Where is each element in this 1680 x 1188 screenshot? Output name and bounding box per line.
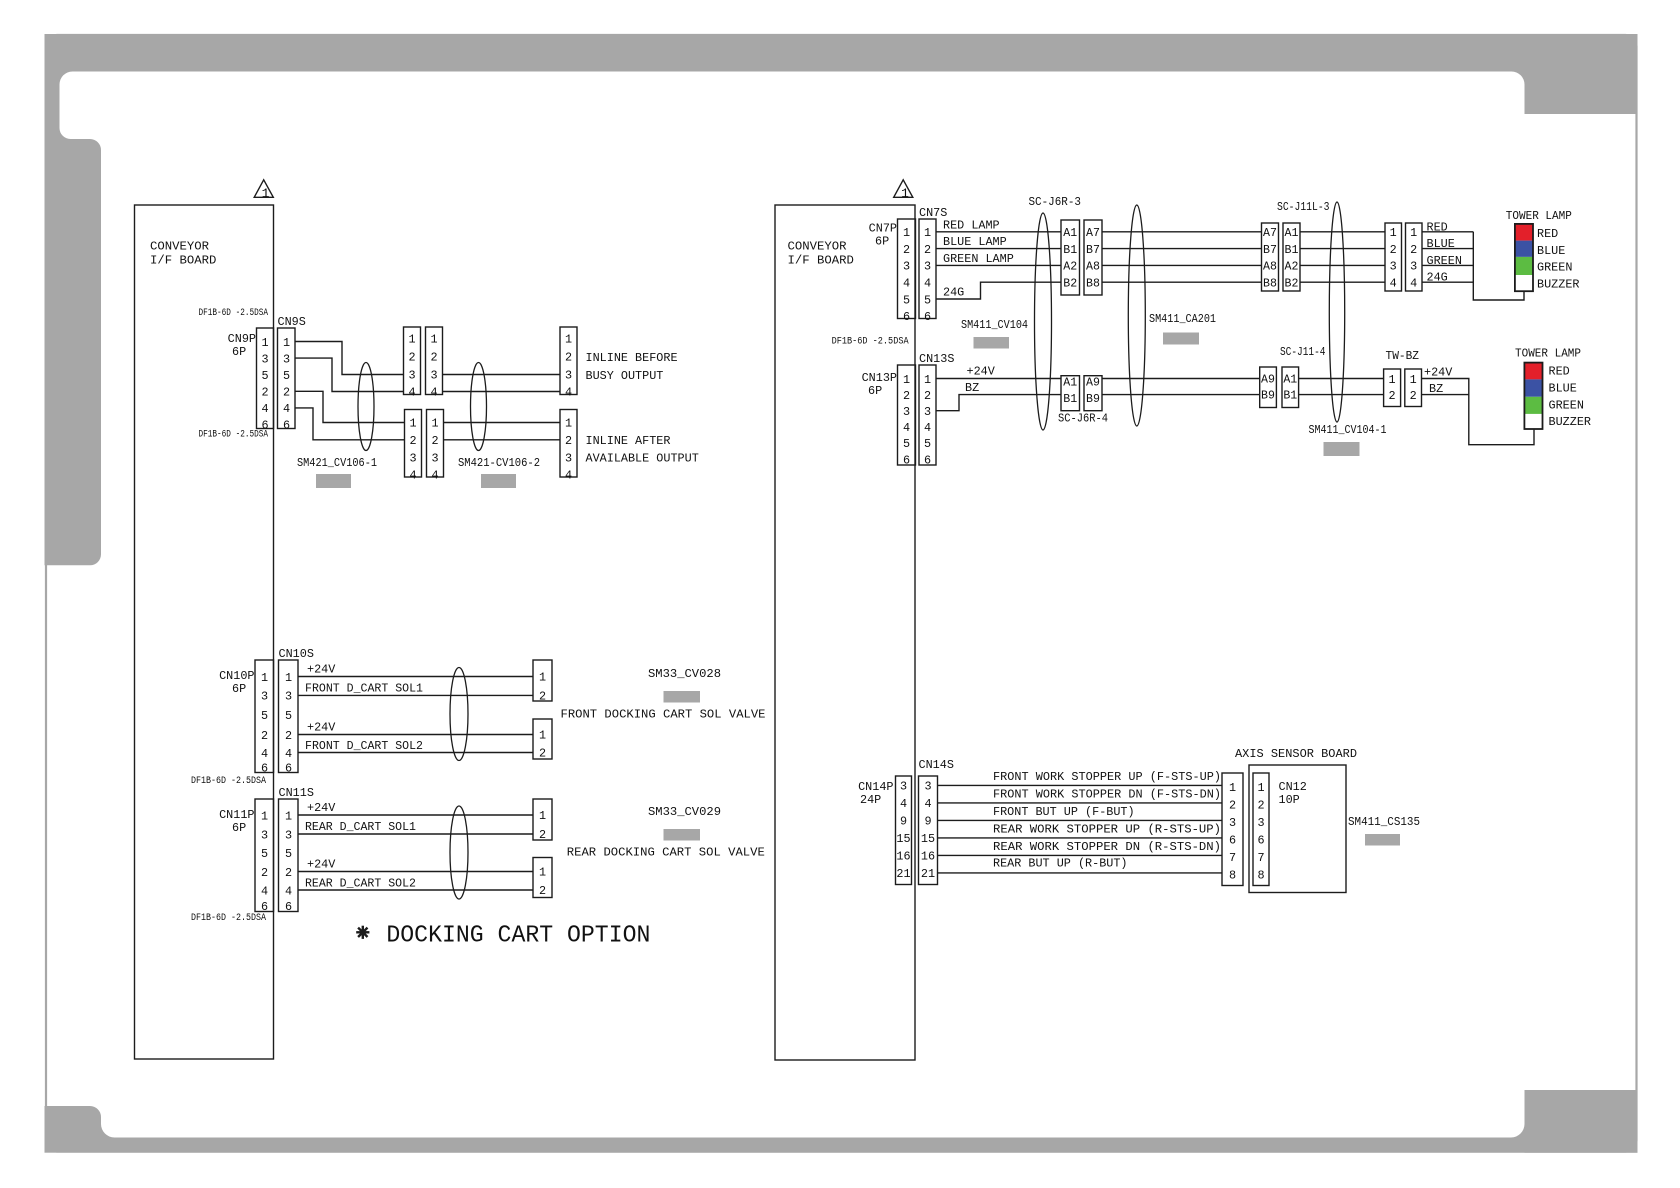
- svg-text:4: 4: [285, 747, 292, 761]
- svg-text:2: 2: [1229, 799, 1236, 813]
- svg-text:BZ: BZ: [1429, 382, 1443, 396]
- svg-text:2: 2: [1257, 799, 1264, 813]
- wire SC-J11-4 A1 to TW-BZ pin1: [1299, 378, 1384, 380]
- wire CN9S-2 to CV106-1 bottom pin1: [295, 391, 405, 422]
- svg-text:2: 2: [1410, 389, 1417, 403]
- wire TW-BZ pin2 BZ: [1422, 382, 1469, 396]
- svg-text:2: 2: [431, 434, 438, 448]
- svg-text:+24V: +24V: [1424, 366, 1453, 380]
- svg-text:5: 5: [285, 847, 292, 861]
- svg-text:SM33_CV028: SM33_CV028: [648, 667, 721, 681]
- svg-text:BLUE: BLUE: [1549, 382, 1577, 396]
- board: AXIS SENSOR BOARD: [1235, 747, 1357, 893]
- svg-text:2: 2: [1410, 243, 1417, 257]
- svg-text:AVAILABLE OUTPUT: AVAILABLE OUTPUT: [586, 452, 699, 466]
- svg-text:3: 3: [903, 260, 910, 274]
- label SM421_CV106-1: [297, 456, 377, 488]
- wire lamp plug pin2 BLUE: [1422, 237, 1473, 251]
- svg-text:REAR BUT UP (R-BUT): REAR BUT UP (R-BUT): [993, 856, 1128, 870]
- svg-text:3: 3: [285, 690, 292, 704]
- svg-text:GREEN: GREEN: [1537, 261, 1572, 275]
- label SM411_CA201: [1149, 312, 1216, 345]
- svg-text:B2: B2: [1063, 277, 1077, 290]
- svg-text:3: 3: [565, 451, 572, 465]
- svg-text:TW-BZ: TW-BZ: [1386, 349, 1420, 363]
- svg-text:2: 2: [565, 434, 572, 448]
- svg-text:3: 3: [261, 352, 268, 366]
- connector rear docking sol valve plug2: [533, 858, 552, 898]
- svg-text:6: 6: [1229, 834, 1236, 848]
- svg-text:1: 1: [1229, 781, 1236, 795]
- wire SC-J6R-3 B8 to SC-J11L-3 B8: [1102, 281, 1262, 283]
- svg-text:SM411_CA201: SM411_CA201: [1149, 312, 1216, 326]
- svg-text:BLUE: BLUE: [1427, 237, 1455, 251]
- svg-text:REAR WORK STOPPER UP (R-STS-UP: REAR WORK STOPPER UP (R-STS-UP): [993, 823, 1221, 837]
- svg-text:1: 1: [565, 333, 572, 347]
- svg-text:B2: B2: [1285, 277, 1299, 290]
- svg-text:CN11S: CN11S: [279, 786, 314, 800]
- svg-text:4: 4: [900, 797, 907, 811]
- svg-text:21: 21: [896, 867, 910, 881]
- svg-text:1: 1: [261, 671, 268, 685]
- svg-text:2: 2: [430, 351, 437, 365]
- wire CN13S-1 +24V to SC-J6R-4 A1: [936, 365, 1061, 379]
- connector TW-BZ pair: [1384, 349, 1422, 407]
- svg-text:I/F BOARD: I/F BOARD: [150, 254, 216, 268]
- connector rear docking sol valve plug1: [533, 799, 552, 840]
- wire CN9S-4 to CV106-1 bottom pin2: [295, 408, 405, 440]
- svg-text:+24V: +24V: [967, 365, 996, 379]
- svg-text:1: 1: [1388, 373, 1395, 387]
- svg-text:+24V: +24V: [307, 663, 336, 677]
- svg-text:3: 3: [408, 369, 415, 383]
- svg-text:+24V: +24V: [307, 801, 336, 815]
- svg-text:REAR D_CART SOL2: REAR D_CART SOL2: [305, 876, 416, 890]
- svg-text:3: 3: [285, 828, 292, 842]
- connector SM421_CV106-1 bottom pair: [405, 410, 444, 483]
- svg-text:2: 2: [924, 389, 931, 403]
- svg-text:REAR D_CART SOL1: REAR D_CART SOL1: [305, 820, 416, 834]
- connector CN7S: [919, 206, 947, 324]
- svg-text:7: 7: [1257, 851, 1264, 865]
- svg-text:1: 1: [539, 866, 546, 880]
- svg-text:DF1B-6D -2.5DSA: DF1B-6D -2.5DSA: [832, 336, 910, 348]
- svg-text:5: 5: [903, 437, 910, 451]
- svg-text:4: 4: [261, 402, 268, 416]
- label SM421-CV106-2: [458, 456, 540, 488]
- svg-text:A1: A1: [1063, 377, 1077, 390]
- connector front docking sol valve plug2: [533, 719, 552, 759]
- svg-text:3: 3: [430, 369, 437, 383]
- connector SC-J11L-3 pair: [1262, 200, 1330, 291]
- svg-text:SM421-CV106-2: SM421-CV106-2: [458, 456, 540, 470]
- svg-text:SC-J6R-4: SC-J6R-4: [1058, 412, 1108, 426]
- svg-text:5: 5: [261, 709, 268, 723]
- svg-text:5: 5: [261, 369, 268, 383]
- svg-text:B8: B8: [1263, 277, 1277, 290]
- svg-text:+24V: +24V: [307, 721, 336, 735]
- svg-text:GREEN LAMP: GREEN LAMP: [943, 252, 1014, 266]
- wire CV106-1 bottom pin2 to inline-after pin2: [444, 439, 561, 441]
- svg-text:1: 1: [1410, 373, 1417, 387]
- svg-text:CN7P: CN7P: [869, 222, 897, 236]
- connector CN11S: [279, 786, 314, 914]
- wire CN13S-3 BZ to SC-J6R-4 B1: [936, 381, 1061, 411]
- svg-text:SM33_CV029: SM33_CV029: [648, 805, 721, 819]
- svg-text:2: 2: [903, 389, 910, 403]
- svg-text:CN13S: CN13S: [919, 352, 954, 366]
- connector CN12 plug (cable side): [1222, 773, 1243, 886]
- svg-text:6P: 6P: [232, 821, 246, 835]
- svg-text:CONVEYOR: CONVEYOR: [788, 239, 848, 253]
- svg-text:2: 2: [539, 828, 546, 842]
- svg-text:15: 15: [921, 832, 935, 846]
- svg-text:6: 6: [285, 762, 292, 776]
- svg-text:REAR DOCKING CART SOL VALVE: REAR DOCKING CART SOL VALVE: [567, 845, 765, 859]
- wire SC-J6R-3 A7 to SC-J11L-3 A7: [1102, 231, 1262, 233]
- cable shield ellipse SM421_CV106-1: [358, 363, 374, 451]
- svg-text:1: 1: [431, 417, 438, 431]
- svg-text:16: 16: [896, 850, 910, 864]
- svg-text:4: 4: [903, 421, 910, 435]
- wire CN14S to CN12 (R-STS-DN): [938, 840, 1223, 855]
- svg-text:CN12: CN12: [1279, 780, 1307, 794]
- cable shield ellipse SM33_CV028: [450, 668, 468, 761]
- connector CN9S: [278, 315, 306, 433]
- svg-text:5: 5: [903, 293, 910, 307]
- svg-text:CN10S: CN10S: [279, 647, 314, 661]
- svg-text:3: 3: [1410, 260, 1417, 274]
- svg-text:TOWER LAMP: TOWER LAMP: [1515, 347, 1581, 361]
- svg-text:FRONT WORK STOPPER UP (F-STS-U: FRONT WORK STOPPER UP (F-STS-UP): [993, 770, 1221, 784]
- svg-text:6: 6: [903, 310, 910, 324]
- svg-text:1: 1: [901, 186, 909, 201]
- svg-text:1: 1: [903, 226, 910, 240]
- wire lamp plug pin3 GREEN: [1422, 254, 1473, 268]
- svg-text:1: 1: [903, 373, 910, 387]
- svg-text:4: 4: [409, 469, 416, 483]
- wire CN7S-3 GREEN LAMP to SC-J6R-3 A2: [936, 252, 1061, 266]
- cable shield ellipse SM421-CV106-2: [471, 363, 487, 451]
- svg-text:2: 2: [408, 351, 415, 365]
- svg-text:2: 2: [565, 351, 572, 365]
- svg-text:1: 1: [539, 671, 546, 685]
- svg-text:2: 2: [1388, 389, 1395, 403]
- svg-text:A2: A2: [1063, 261, 1077, 274]
- svg-text:B1: B1: [1063, 244, 1077, 257]
- svg-text:2: 2: [539, 884, 546, 898]
- connector CN10P 6P (DF1B-6D -2.5DSA): [191, 660, 274, 787]
- svg-text:6: 6: [283, 419, 290, 433]
- svg-text:CN13P: CN13P: [862, 371, 897, 385]
- connector tower lamp plug pair: [1385, 223, 1422, 291]
- svg-text:3: 3: [900, 780, 907, 794]
- svg-text:SM411_CV104-1: SM411_CV104-1: [1309, 423, 1387, 437]
- svg-text:6P: 6P: [875, 235, 889, 249]
- wire CN9S-1 to CV106-1 top pin3: [295, 342, 404, 375]
- wire SC-J6R-3 A8 to SC-J11L-3 A8: [1102, 264, 1262, 266]
- svg-text:2: 2: [261, 866, 268, 880]
- svg-text:1: 1: [261, 809, 268, 823]
- wire SC-J6R-4 B9 to SC-J11-4 B9: [1102, 394, 1260, 396]
- svg-text:SC-J6R-3: SC-J6R-3: [1029, 195, 1082, 209]
- connector SC-J6R-4 pair: [1058, 376, 1108, 426]
- svg-text:B1: B1: [1283, 390, 1297, 403]
- svg-text:RED LAMP: RED LAMP: [943, 218, 1000, 232]
- svg-text:RED: RED: [1427, 220, 1448, 234]
- caution symbol 1 (left board): [254, 180, 273, 201]
- svg-text:6: 6: [924, 453, 931, 467]
- note DOCKING CART OPTION: [356, 922, 650, 949]
- tower lamp 2: [1515, 347, 1591, 430]
- wire CN10S-3 FRONT D_CART SOL1 to front sol valve1 pin2: [298, 682, 533, 696]
- svg-text:1: 1: [430, 333, 437, 347]
- svg-text:1: 1: [283, 336, 290, 350]
- svg-text:1: 1: [408, 333, 415, 347]
- cable shield ellipse SM33_CV029: [450, 806, 468, 899]
- label SM411_CV104: [961, 318, 1028, 349]
- svg-text:6: 6: [924, 310, 931, 324]
- svg-text:DF1B-6D -2.5DSA: DF1B-6D -2.5DSA: [191, 776, 267, 787]
- svg-text:SM421_CV106-1: SM421_CV106-1: [297, 456, 377, 470]
- connector CN9P 6P (DF1B-6D -2.5DSA): [199, 308, 274, 441]
- svg-text:B8: B8: [1086, 277, 1100, 290]
- svg-text:GREEN: GREEN: [1427, 254, 1462, 268]
- svg-text:5: 5: [285, 709, 292, 723]
- svg-text:FRONT BUT UP (F-BUT): FRONT BUT UP (F-BUT): [993, 805, 1135, 819]
- wire lamp plug pin1 RED: [1422, 220, 1473, 234]
- svg-text:DF1B-6D -2.5DSA: DF1B-6D -2.5DSA: [199, 308, 269, 319]
- svg-text:A7: A7: [1263, 227, 1277, 240]
- svg-text:DF1B-6D -2.5DSA: DF1B-6D -2.5DSA: [191, 913, 267, 924]
- wire CN9S-3 to CV106-1 top pin4: [295, 358, 404, 391]
- svg-text:2: 2: [924, 243, 931, 257]
- svg-text:4: 4: [565, 469, 572, 483]
- wire CN14S to CN12 (R-STS-UP): [938, 823, 1223, 838]
- svg-text:1: 1: [1257, 781, 1264, 795]
- svg-text:REAR WORK STOPPER DN (R-STS-DN: REAR WORK STOPPER DN (R-STS-DN): [993, 840, 1221, 854]
- svg-text:6: 6: [261, 762, 268, 776]
- svg-text:3: 3: [903, 405, 910, 419]
- svg-text:B1: B1: [1285, 244, 1299, 257]
- wire CN10S-2 +24V to front sol valve2 pin1: [298, 721, 533, 735]
- svg-text:TOWER LAMP: TOWER LAMP: [1506, 209, 1572, 223]
- connector CN7P 6P (DF1B-6D -2.5DSA): [832, 219, 916, 348]
- connector CN10S: [279, 647, 314, 776]
- board: CONVEYOR I/F BOARD (left): [135, 205, 274, 1059]
- wire SC-J11L-3 A1 to lamp plug pin1: [1300, 231, 1385, 233]
- svg-text:B7: B7: [1263, 244, 1277, 257]
- svg-text:2: 2: [285, 866, 292, 880]
- wire CN11S-3 REAR D_CART SOL1 to rear sol valve1 pin2: [298, 820, 533, 834]
- connector CN14P 24P: [858, 776, 911, 885]
- wire CN14S to CN12 (F-STS-UP): [938, 770, 1223, 785]
- svg-text:1: 1: [1390, 226, 1397, 240]
- svg-text:9: 9: [924, 815, 931, 829]
- svg-text:A1: A1: [1283, 374, 1297, 387]
- svg-text:A8: A8: [1263, 261, 1277, 274]
- svg-text:24G: 24G: [943, 286, 964, 300]
- svg-text:BLUE LAMP: BLUE LAMP: [943, 235, 1007, 249]
- svg-text:FRONT D_CART SOL2: FRONT D_CART SOL2: [305, 739, 423, 753]
- svg-text:4: 4: [283, 402, 290, 416]
- svg-text:3: 3: [1229, 816, 1236, 830]
- svg-text:B7: B7: [1086, 244, 1100, 257]
- wire SC-J6R-3 B7 to SC-J11L-3 B7: [1102, 248, 1262, 250]
- svg-text:B9: B9: [1261, 390, 1275, 403]
- svg-text:2: 2: [261, 729, 268, 743]
- svg-text:SM411_CV104: SM411_CV104: [961, 318, 1028, 332]
- svg-text:A8: A8: [1086, 261, 1100, 274]
- svg-text:10P: 10P: [1279, 793, 1300, 807]
- svg-text:3: 3: [565, 369, 572, 383]
- svg-text:6P: 6P: [232, 682, 246, 696]
- cable shield ellipse SM411_CA201: [1128, 205, 1145, 426]
- label SM411_CV104-1: [1309, 423, 1387, 456]
- svg-text:3: 3: [283, 352, 290, 366]
- cable shield ellipse SM411_CV104: [1035, 213, 1052, 430]
- svg-text:2: 2: [283, 386, 290, 400]
- svg-text:1: 1: [409, 417, 416, 431]
- wire CN7S-2 BLUE LAMP to SC-J6R-3 B1: [936, 235, 1061, 249]
- svg-text:1: 1: [539, 729, 546, 743]
- svg-text:5: 5: [261, 847, 268, 861]
- svg-text:6: 6: [903, 453, 910, 467]
- svg-text:A9: A9: [1086, 377, 1100, 390]
- svg-text:FRONT WORK STOPPER DN (F-STS-D: FRONT WORK STOPPER DN (F-STS-DN): [993, 788, 1221, 802]
- svg-text:B1: B1: [1063, 393, 1077, 406]
- svg-text:24P: 24P: [860, 793, 881, 807]
- svg-text:7: 7: [1229, 851, 1236, 865]
- connector CN13S: [919, 352, 954, 467]
- svg-text:CN9S: CN9S: [278, 315, 306, 329]
- svg-text:2: 2: [903, 243, 910, 257]
- connector INLINE AFTER output: [560, 410, 699, 483]
- svg-text:4: 4: [285, 884, 292, 898]
- svg-text:2: 2: [1390, 243, 1397, 257]
- svg-text:BUZZER: BUZZER: [1549, 415, 1591, 429]
- svg-text:A1: A1: [1285, 227, 1299, 240]
- svg-text:4: 4: [1390, 276, 1397, 290]
- svg-text:A2: A2: [1285, 261, 1299, 274]
- svg-text:3: 3: [1257, 816, 1264, 830]
- wire SC-J6R-4 A9 to SC-J11-4 A9: [1102, 378, 1260, 380]
- wire lamp plug pin4 24G: [1422, 271, 1473, 285]
- svg-text:16: 16: [921, 850, 935, 864]
- wire CN11S-2 +24V to rear sol valve2 pin1: [298, 858, 533, 872]
- svg-text:1: 1: [262, 186, 270, 201]
- svg-text:FRONT D_CART SOL1: FRONT D_CART SOL1: [305, 682, 423, 696]
- wire CN14S to CN12 (F-STS-DN): [938, 788, 1223, 803]
- svg-text:DOCKING CART OPTION: DOCKING CART OPTION: [386, 922, 650, 949]
- svg-text:BLUE: BLUE: [1537, 244, 1565, 258]
- svg-text:3: 3: [924, 780, 931, 794]
- svg-text:15: 15: [896, 832, 910, 846]
- wire SC-J11L-3 A2 to lamp plug pin3: [1300, 264, 1385, 266]
- tower lamp 1: [1506, 209, 1580, 291]
- svg-text:6P: 6P: [868, 384, 882, 398]
- connector CN13P 6P: [862, 365, 916, 467]
- svg-text:24G: 24G: [1427, 271, 1448, 285]
- svg-text:1: 1: [539, 809, 546, 823]
- svg-text:2: 2: [409, 434, 416, 448]
- svg-text:BUSY OUTPUT: BUSY OUTPUT: [586, 369, 664, 383]
- svg-text:2: 2: [539, 747, 546, 761]
- svg-text:A7: A7: [1086, 227, 1100, 240]
- connector CN12 10P (board side): [1253, 773, 1269, 886]
- wire SC-J11L-3 B1 to lamp plug pin2: [1300, 248, 1385, 250]
- wire CN7S-1 RED LAMP to SC-J6R-3 A1: [936, 218, 1061, 232]
- svg-text:4: 4: [1410, 276, 1417, 290]
- svg-text:RED: RED: [1537, 227, 1558, 241]
- label SM411_CS135: [1348, 815, 1420, 846]
- svg-text:6: 6: [285, 900, 292, 914]
- svg-text:6P: 6P: [232, 345, 246, 359]
- svg-text:4: 4: [261, 884, 268, 898]
- wire CV106-1 top pin4 to inline-before pin4: [443, 391, 561, 393]
- svg-text:2: 2: [285, 729, 292, 743]
- svg-text:B9: B9: [1086, 393, 1100, 406]
- svg-text:8: 8: [1257, 869, 1264, 883]
- svg-text:4: 4: [430, 386, 437, 400]
- svg-text:5: 5: [283, 369, 290, 383]
- svg-text:1: 1: [285, 809, 292, 823]
- svg-text:BUZZER: BUZZER: [1537, 277, 1579, 291]
- svg-text:2: 2: [539, 690, 546, 704]
- svg-text:3: 3: [1390, 260, 1397, 274]
- svg-text:INLINE BEFORE: INLINE BEFORE: [586, 351, 678, 365]
- svg-text:AXIS SENSOR BOARD: AXIS SENSOR BOARD: [1235, 747, 1357, 761]
- svg-text:DF1B-6D -2.5DSA: DF1B-6D -2.5DSA: [199, 430, 269, 441]
- svg-text:CN14P: CN14P: [858, 780, 893, 794]
- connector CN14S: [919, 758, 954, 885]
- wire CN10S-4 FRONT D_CART SOL2 to front sol valve2 pin2: [298, 739, 533, 753]
- wire CV106-1 bottom pin1 to inline-after pin1: [444, 422, 561, 424]
- svg-text:6: 6: [261, 900, 268, 914]
- caution symbol 1 (right board): [894, 180, 913, 201]
- svg-text:1: 1: [924, 373, 931, 387]
- svg-text:4: 4: [261, 747, 268, 761]
- svg-text:3: 3: [924, 260, 931, 274]
- svg-text:9: 9: [900, 815, 907, 829]
- svg-text:GREEN: GREEN: [1549, 398, 1584, 412]
- svg-text:4: 4: [924, 277, 931, 291]
- wire CN7S-5 24G to SC-J6R-3 B2: [936, 282, 1061, 299]
- wire SC-J11L-3 B2 to lamp plug pin4: [1300, 281, 1385, 283]
- svg-text:21: 21: [921, 867, 935, 881]
- svg-text:4: 4: [565, 386, 572, 400]
- svg-text:1: 1: [565, 417, 572, 431]
- wire CN14S to CN12 (F-BUT): [938, 805, 1223, 820]
- connector front docking sol valve plug1: [533, 660, 552, 701]
- svg-text:FRONT DOCKING CART SOL VALVE: FRONT DOCKING CART SOL VALVE: [561, 707, 766, 721]
- svg-text:3: 3: [431, 451, 438, 465]
- connector SC-J6R-3 pair (SM411_CV104): [1029, 195, 1103, 295]
- svg-text:1: 1: [924, 226, 931, 240]
- wire CN14S to CN12 (R-BUT): [938, 856, 1223, 873]
- wire bus to tower lamp 1: [1473, 232, 1524, 300]
- svg-text:5: 5: [924, 293, 931, 307]
- svg-text:8: 8: [1229, 869, 1236, 883]
- svg-text:BZ: BZ: [965, 381, 979, 395]
- svg-text:4: 4: [924, 797, 931, 811]
- svg-text:SC-J11-4: SC-J11-4: [1280, 345, 1326, 359]
- svg-text:2: 2: [261, 386, 268, 400]
- svg-text:5: 5: [924, 437, 931, 451]
- connector INLINE BEFORE output: [560, 327, 678, 400]
- svg-text:INLINE AFTER: INLINE AFTER: [586, 434, 671, 448]
- svg-text:3: 3: [924, 405, 931, 419]
